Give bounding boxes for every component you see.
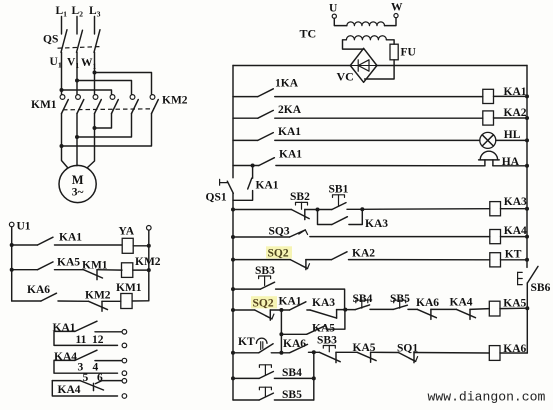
rung6 wire right	[310, 236, 490, 238]
coil KA2 (rung2)	[483, 111, 494, 125]
svg-text:KA1: KA1	[256, 180, 279, 192]
right rail lower	[526, 283, 528, 353]
limit switch SQ2 (rung7) highlight	[266, 246, 292, 258]
limit switch SQ2 (rung7) chevron	[301, 264, 310, 269]
svg-text:KA4: KA4	[58, 384, 81, 396]
rung8 wire to KA1	[281, 309, 289, 311]
wire U1 phase	[61, 52, 63, 94]
switch QS pole 1 blade	[61, 30, 67, 53]
rung8 wire to SB4	[345, 309, 355, 311]
switch QS1 blade	[227, 181, 233, 193]
rectifier VC bridge diamond	[350, 48, 377, 82]
pushbutton SB3 NO blade	[260, 282, 274, 289]
svg-text:QS: QS	[43, 34, 58, 46]
svg-text:U: U	[329, 3, 338, 15]
wire coil KT to rail	[501, 259, 528, 261]
contactor KM2 main contact 1 terminal circle	[110, 95, 115, 100]
SB4-row wire left	[233, 377, 259, 379]
contact KA1 (B1) blade	[38, 237, 54, 245]
coil KM2	[122, 263, 133, 278]
limit switch SQ2 (rung7) blade	[290, 260, 307, 269]
limit switch SQ3 chevron	[299, 230, 308, 235]
contact KA1 (rung4) blade	[259, 158, 275, 166]
terminal 3-line	[122, 358, 127, 363]
coil KA1 (rung1)	[483, 89, 494, 103]
contact KA1 bypass upper wire	[252, 166, 254, 179]
junction rung2 right	[525, 116, 529, 120]
svg-text:KA5: KA5	[312, 322, 335, 334]
svg-text:KA1: KA1	[504, 86, 527, 98]
node U terminal	[332, 14, 336, 18]
svg-text:FU: FU	[401, 47, 417, 59]
contact KA1 bypass lower wire	[233, 191, 253, 201]
svg-text:KA1: KA1	[279, 149, 302, 161]
timer contact KT blade	[259, 344, 273, 353]
terminal 6-line circle	[122, 379, 127, 384]
wire L3 drop	[94, 17, 96, 35]
junction rung B1 right	[147, 244, 151, 248]
svg-text:KA6: KA6	[503, 343, 526, 355]
svg-text:SQ2: SQ2	[268, 248, 289, 260]
rung2 wire left	[233, 117, 258, 119]
junction KM2 out 2	[75, 135, 79, 139]
pushbutton SB4 (bottom) cap	[259, 365, 271, 368]
svg-text:KA3: KA3	[365, 218, 388, 230]
rung3 wire right	[275, 139, 480, 141]
right rail B terminal	[147, 226, 152, 231]
junction rung4 right	[525, 164, 529, 168]
contact 2KA blade	[258, 110, 274, 118]
contactor KM1 main contact 3 blade	[95, 100, 102, 114]
rung9 wire after KT	[271, 352, 281, 354]
SB3-rung wire left	[233, 288, 260, 290]
contactor KM1 main contact 1 terminal circle	[60, 95, 65, 100]
svg-text:KT: KT	[505, 249, 522, 261]
contact block KA4b bar	[93, 383, 95, 390]
junction rung6 right	[525, 235, 529, 239]
wire rung B1 mid	[55, 244, 123, 246]
svg-text:SQ2: SQ2	[253, 298, 274, 310]
limit switch SQ1 chevron	[409, 357, 418, 362]
pushbutton SB5 (bottom) blade	[259, 393, 273, 400]
terminal 11-line	[122, 330, 127, 335]
contact KA5 NC (rung9)	[357, 352, 376, 360]
left rail B	[11, 227, 13, 301]
SB5-row wire left corner	[233, 399, 259, 401]
wire HL to rail	[496, 139, 527, 141]
contact KA1 (rung8) blade	[290, 302, 306, 310]
svg-text:12: 12	[92, 334, 104, 346]
contact KA4 NC (rung8)	[457, 309, 476, 317]
contact block KA4a blade	[75, 350, 97, 360]
limit switch SQ1 bar	[413, 353, 415, 363]
svg-text:KA1: KA1	[59, 232, 82, 244]
svg-text:KA5: KA5	[503, 298, 526, 310]
node W terminal	[394, 14, 398, 18]
contact KA1 bypass blade	[248, 178, 252, 189]
pushbutton SB1 NO blade	[332, 203, 346, 210]
contact KA5 hold wire right riser	[327, 310, 345, 330]
contact block KA4b common bracket	[52, 381, 117, 396]
svg-text:KM2: KM2	[135, 256, 161, 268]
junction SB3-rung left	[231, 287, 235, 291]
wire rung B3 left corner	[12, 300, 41, 302]
svg-text:KA3: KA3	[312, 297, 335, 309]
bell HA dome	[480, 151, 497, 160]
pushbutton SB3 cap	[259, 276, 271, 279]
rectifier VC diode cathode bar	[357, 60, 359, 71]
svg-text:QS1: QS1	[206, 192, 227, 204]
svg-text:TC: TC	[300, 27, 317, 41]
wire HA to rail	[493, 165, 527, 167]
junction rung9 left	[231, 351, 235, 355]
contactor KM1 main contact 1 lower wire	[62, 114, 68, 168]
svg-text:YA: YA	[119, 226, 135, 238]
coil KA5	[489, 301, 500, 316]
rung5 wire left	[233, 209, 291, 211]
svg-text:KM1: KM1	[116, 282, 142, 294]
junction on W1 to KM2	[93, 71, 97, 75]
junction KA5 branch	[279, 332, 283, 336]
junction SB4-row right	[312, 376, 316, 380]
svg-text:SQ3: SQ3	[269, 225, 290, 237]
junction rung5 right	[525, 207, 529, 211]
junction rung8 KA1 branch	[279, 308, 283, 312]
rung1 wire right	[275, 96, 483, 98]
bell HA base	[479, 159, 500, 161]
wire U to primary	[334, 18, 347, 25]
svg-text:KA2: KA2	[504, 107, 527, 119]
svg-text:U1: U1	[17, 221, 31, 233]
switch SB6 latch actuator	[517, 272, 519, 284]
svg-text:11: 11	[76, 334, 87, 346]
rung8 wire after KA3	[337, 309, 346, 311]
svg-text:SB4: SB4	[282, 367, 302, 379]
wire KA5-branch to rung9	[280, 334, 282, 353]
svg-text:HL: HL	[504, 129, 521, 141]
rung8 wire after SQ2	[270, 309, 281, 311]
SB4-SB5 riser	[313, 352, 315, 400]
svg-text:KM2: KM2	[162, 95, 188, 107]
wire rung B2 left	[12, 269, 38, 271]
contact KA5 blade	[38, 262, 54, 270]
contact block KA4b blade	[80, 381, 104, 390]
contact KA3 (rung8) riser	[336, 310, 338, 319]
svg-text:2KA: 2KA	[278, 104, 302, 116]
coil KA6	[489, 346, 500, 361]
wire W1 phase	[94, 52, 96, 94]
svg-text:KA6: KA6	[416, 297, 439, 309]
rung5 wire after SB1	[347, 208, 362, 210]
svg-text:SB1: SB1	[329, 184, 349, 196]
right rail B	[148, 230, 150, 301]
svg-text:www.diangon.com: www.diangon.com	[428, 390, 546, 405]
top bus left segment	[233, 65, 350, 67]
wire coil KA6 to rail	[500, 352, 527, 354]
junction rung8 SB3-drop	[343, 308, 347, 312]
timer contact KT legs	[260, 342, 262, 350]
rung4 wire left	[233, 165, 259, 167]
contactor KM1 main contact 2 blade	[77, 100, 84, 114]
contactor KM1 main contact 2 terminal circle	[76, 95, 81, 100]
svg-text:KA3: KA3	[504, 196, 527, 208]
limit switch SQ3 blade	[290, 230, 306, 237]
contact KA6 (rung9) blade	[290, 344, 308, 352]
rung2 wire right	[275, 117, 483, 119]
svg-text:SB6: SB6	[531, 282, 551, 294]
rung7 wire right	[349, 259, 490, 261]
wire L2 drop	[76, 17, 78, 35]
transformer TC primary winding	[347, 22, 385, 26]
junction rung1 right	[525, 94, 529, 98]
switch QS pole 3 blade	[94, 30, 100, 53]
junction KM2 out 1	[60, 144, 64, 148]
junction rung7 left	[231, 258, 235, 262]
junction rung9 SB4-SB5 riser	[312, 350, 316, 354]
wire W1 to KM2 pole 3	[95, 73, 152, 95]
contact KM1 NC	[84, 270, 103, 278]
rung9 wire SB3-KA5	[336, 351, 357, 353]
wire V1 to KM2 pole 2	[77, 81, 132, 95]
contactor KM2 main contact 3 blade	[152, 100, 159, 114]
rung5 wire to SB1	[318, 209, 332, 211]
terminal common circle	[122, 394, 127, 399]
rectifier VC diode triangle	[358, 60, 369, 71]
contact block KA1 upper output wire	[95, 331, 122, 333]
wire coil KA4 to rail	[501, 236, 528, 238]
contact block KA1 blade	[75, 321, 97, 331]
wire coil KA2 to rail	[494, 117, 528, 119]
wire rung B3 to coil	[102, 300, 121, 302]
wire coil KA5 to rail	[500, 307, 527, 309]
coil YA	[122, 238, 133, 253]
SB4-row wire right	[274, 377, 313, 379]
rung1 wire left	[233, 96, 258, 98]
contact block KA4b seat 6	[96, 381, 102, 384]
contact KA2 (rung7) blade	[332, 252, 348, 260]
junction on V1 to KM2	[75, 79, 79, 83]
contact block KA4b output 6 wire	[101, 380, 122, 382]
junction rung B2 left	[10, 268, 14, 272]
contactor KM1-KM2 linkage dashed	[63, 109, 154, 110]
rung9 wire to coil KA6	[414, 352, 489, 355]
svg-text:KM1: KM1	[31, 99, 57, 111]
contact block KA4a upper output wire	[95, 360, 122, 362]
junction KM2 out 3	[93, 126, 97, 130]
wire V1 phase	[76, 52, 78, 94]
limit switch SQ2 (rung8) bar	[269, 310, 271, 320]
svg-text:SB2: SB2	[290, 191, 310, 203]
wire coil KA1 to rail	[494, 95, 528, 97]
wire secondary right to fuse	[386, 40, 394, 44]
svg-text:M: M	[72, 173, 84, 187]
svg-text:SB3: SB3	[255, 265, 275, 277]
pushbutton SB3 (rung9) NC bar	[335, 352, 337, 362]
svg-text:KA1: KA1	[278, 126, 301, 138]
contact KA5 hold branch drop	[280, 310, 282, 334]
svg-text:1KA: 1KA	[275, 77, 299, 89]
left rail lower	[232, 193, 234, 400]
junction rung4 KA1-bypass	[251, 164, 255, 168]
svg-text:VC: VC	[337, 70, 354, 84]
junction rung6 left	[231, 235, 235, 239]
terminal 12-line	[122, 343, 127, 348]
coil KA3	[490, 202, 501, 216]
wire coil KA3 to rail	[501, 208, 528, 210]
svg-text:KT: KT	[238, 336, 255, 348]
rung8 wire to coil KA5	[470, 308, 489, 311]
svg-text:SB3: SB3	[317, 334, 337, 346]
wire secondary left to bridge top	[343, 40, 364, 49]
rung9 wire to KA6 contact	[281, 352, 289, 354]
svg-text:KM2: KM2	[85, 290, 111, 302]
rung7 wire left	[233, 259, 290, 261]
rung4 wire right	[276, 165, 485, 167]
switch QS1 tick	[219, 179, 221, 185]
transformer TC secondary winding	[346, 36, 386, 40]
svg-text:3~: 3~	[72, 187, 84, 199]
contactor KM2 main contact 3 lower wire	[62, 114, 152, 147]
junction rung7 right	[525, 258, 529, 262]
rung8 wire SB4-SB5	[370, 308, 393, 310]
pushbutton SB5 NO blade	[393, 305, 407, 309]
coil KM1	[121, 294, 132, 309]
wire rung B2 mid	[55, 269, 84, 271]
left rail upper	[232, 66, 234, 178]
rectifier VC diode axis	[350, 65, 377, 67]
contact KA5 hold wire left	[281, 333, 306, 335]
wire rung B3 mid	[58, 300, 89, 302]
contact KM2 NC	[89, 301, 108, 309]
contact block KA4b upper wire	[52, 380, 80, 382]
svg-text:SB5: SB5	[282, 389, 302, 401]
wire rung B1 left	[12, 244, 38, 246]
wire U1 to KM2 pole 1	[62, 90, 112, 94]
junction rung B2 right	[147, 268, 151, 272]
terminal 4-line	[122, 371, 127, 376]
SB3-rung wire right	[276, 289, 345, 310]
rung3 wire left	[233, 139, 258, 141]
junction rung8 right	[525, 306, 529, 310]
rung7 wire mid	[306, 259, 332, 261]
junction rung3 right	[525, 138, 529, 142]
limit switch SQ2 (rung8) chevron	[265, 314, 274, 319]
junction rung9 KA5-branch drop	[279, 351, 283, 355]
coil KT	[490, 253, 501, 267]
limit switch SQ2 (rung8) highlight	[251, 296, 277, 308]
pushbutton SB4 NO blade	[355, 305, 369, 310]
contact 1KA blade	[258, 89, 274, 97]
contact block KA4a common bracket	[54, 360, 118, 373]
svg-text:KA4: KA4	[450, 296, 473, 308]
junction SB1-KA3 right	[360, 207, 364, 211]
rung8 wire SB5-KA6	[408, 308, 417, 310]
contactor KM1 main contact 1 blade	[62, 100, 69, 114]
rung8 wire left	[233, 309, 255, 311]
svg-text:KA4: KA4	[504, 225, 527, 237]
contact KA3 hold right riser	[349, 209, 362, 224]
switch QS pole 2 blade	[77, 30, 83, 52]
contactor KM1 main contact 3 terminal circle	[93, 95, 98, 100]
junction SB1-KA3 left	[316, 208, 320, 212]
contact KA3 hold branch left drop	[318, 210, 332, 225]
junction on U1 to KM2	[60, 88, 64, 92]
contactor KM1 main contact 3 lower wire	[88, 114, 95, 168]
pushbutton SB2 cap	[296, 202, 308, 205]
wire rung B2 to coil	[97, 269, 122, 271]
svg-text:KA6: KA6	[27, 284, 50, 296]
svg-text:W: W	[391, 2, 403, 14]
contactor KM2 main contact 1 lower wire	[95, 114, 112, 129]
motor M circle	[59, 165, 96, 202]
wire rung B3 right corner	[132, 300, 149, 302]
svg-text:KA2: KA2	[352, 247, 375, 259]
right rail upper	[526, 66, 528, 268]
lamp HL circle	[480, 132, 496, 148]
bell HA stem	[484, 160, 486, 166]
contact KA6 blade	[41, 293, 57, 301]
pushbutton SB2 NC blade	[291, 210, 309, 219]
pushbutton SB3 (rung9) NC blade	[319, 352, 340, 361]
svg-text:KA6: KA6	[283, 338, 306, 350]
svg-text:KA5: KA5	[57, 256, 80, 268]
rung6 wire left	[233, 236, 290, 238]
timer contact KT arc	[256, 338, 267, 343]
contact KA3 (rung8) blade	[310, 310, 337, 318]
junction rung5 left	[231, 208, 235, 212]
rung8 wire KA6-KA4	[431, 308, 457, 310]
contact block KA1 common bracket	[54, 331, 118, 345]
pushbutton SB2 NC bar	[304, 210, 306, 220]
junction rung8 left	[231, 308, 235, 312]
lamp HL cross	[482, 135, 493, 146]
wire fuse to bridge bottom	[365, 60, 395, 79]
terminal U1	[9, 222, 14, 227]
pushbutton SB5 cap	[394, 300, 406, 303]
rung5 wire right	[362, 208, 490, 211]
contact KA6 NC (rung8)	[417, 309, 436, 317]
pushbutton SB5 (bottom) cap	[259, 387, 271, 390]
contactor KM2 main contact 2 lower wire	[77, 114, 132, 138]
limit switch SQ1 blade	[398, 353, 415, 362]
rung9 wire KA5-SQ1	[371, 351, 399, 353]
junction SB4-row left	[231, 376, 235, 380]
rung9 wire after KA6	[309, 351, 320, 353]
contactor KM1 main contact 2 lower wire	[76, 114, 78, 166]
SB5-row wire right corner	[274, 399, 313, 401]
contact KA3 hold blade	[332, 217, 348, 225]
pushbutton SB4 (bottom) blade	[259, 372, 273, 379]
wire W to primary	[385, 18, 397, 26]
top bus right segment	[377, 65, 527, 67]
pushbutton SB3 (rung9) cap	[323, 346, 335, 349]
rung5 wire after SB2	[305, 209, 318, 211]
switch SB6 blade	[527, 266, 538, 283]
wire rung B1 right	[133, 245, 149, 247]
limit switch SQ2 (rung7) bar	[305, 260, 307, 270]
contactor KM2 main contact 2 terminal circle	[130, 95, 135, 100]
contact KA5 hold blade	[307, 326, 326, 335]
junction rung B1 left	[10, 243, 14, 247]
limit switch SQ2 (rung8) blade	[255, 310, 272, 319]
contactor KM2 main contact 3 terminal circle	[150, 95, 155, 100]
pushbutton SB4 cap	[356, 300, 368, 303]
contactor KM2 main contact 1 blade	[112, 100, 119, 114]
switch QS linkage dashed	[58, 47, 100, 49]
coil KA4	[490, 230, 501, 244]
rung9 wire left	[233, 352, 259, 354]
svg-text:HA: HA	[502, 156, 520, 168]
